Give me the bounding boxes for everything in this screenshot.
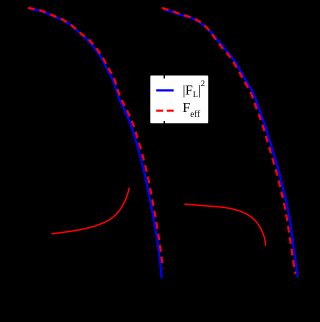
curve |FL|^2 right panel (blue solid): [164, 9, 298, 276]
curve |FL|^2 left panel (blue solid): [30, 9, 162, 277]
axis tick mark bottom of legend: [164, 121, 165, 127]
legend box: [150, 76, 208, 124]
curve F_eff right panel (red dashed): [162, 8, 295, 274]
thin red curve right panel: [185, 204, 266, 245]
thin red curve left panel: [52, 188, 129, 233]
axis tick mark top of legend: [164, 73, 165, 79]
legend red dashed sample line: [156, 110, 174, 112]
curve F_eff left panel (red dashed): [28, 8, 164, 269]
legend blue sample line: [156, 89, 174, 91]
